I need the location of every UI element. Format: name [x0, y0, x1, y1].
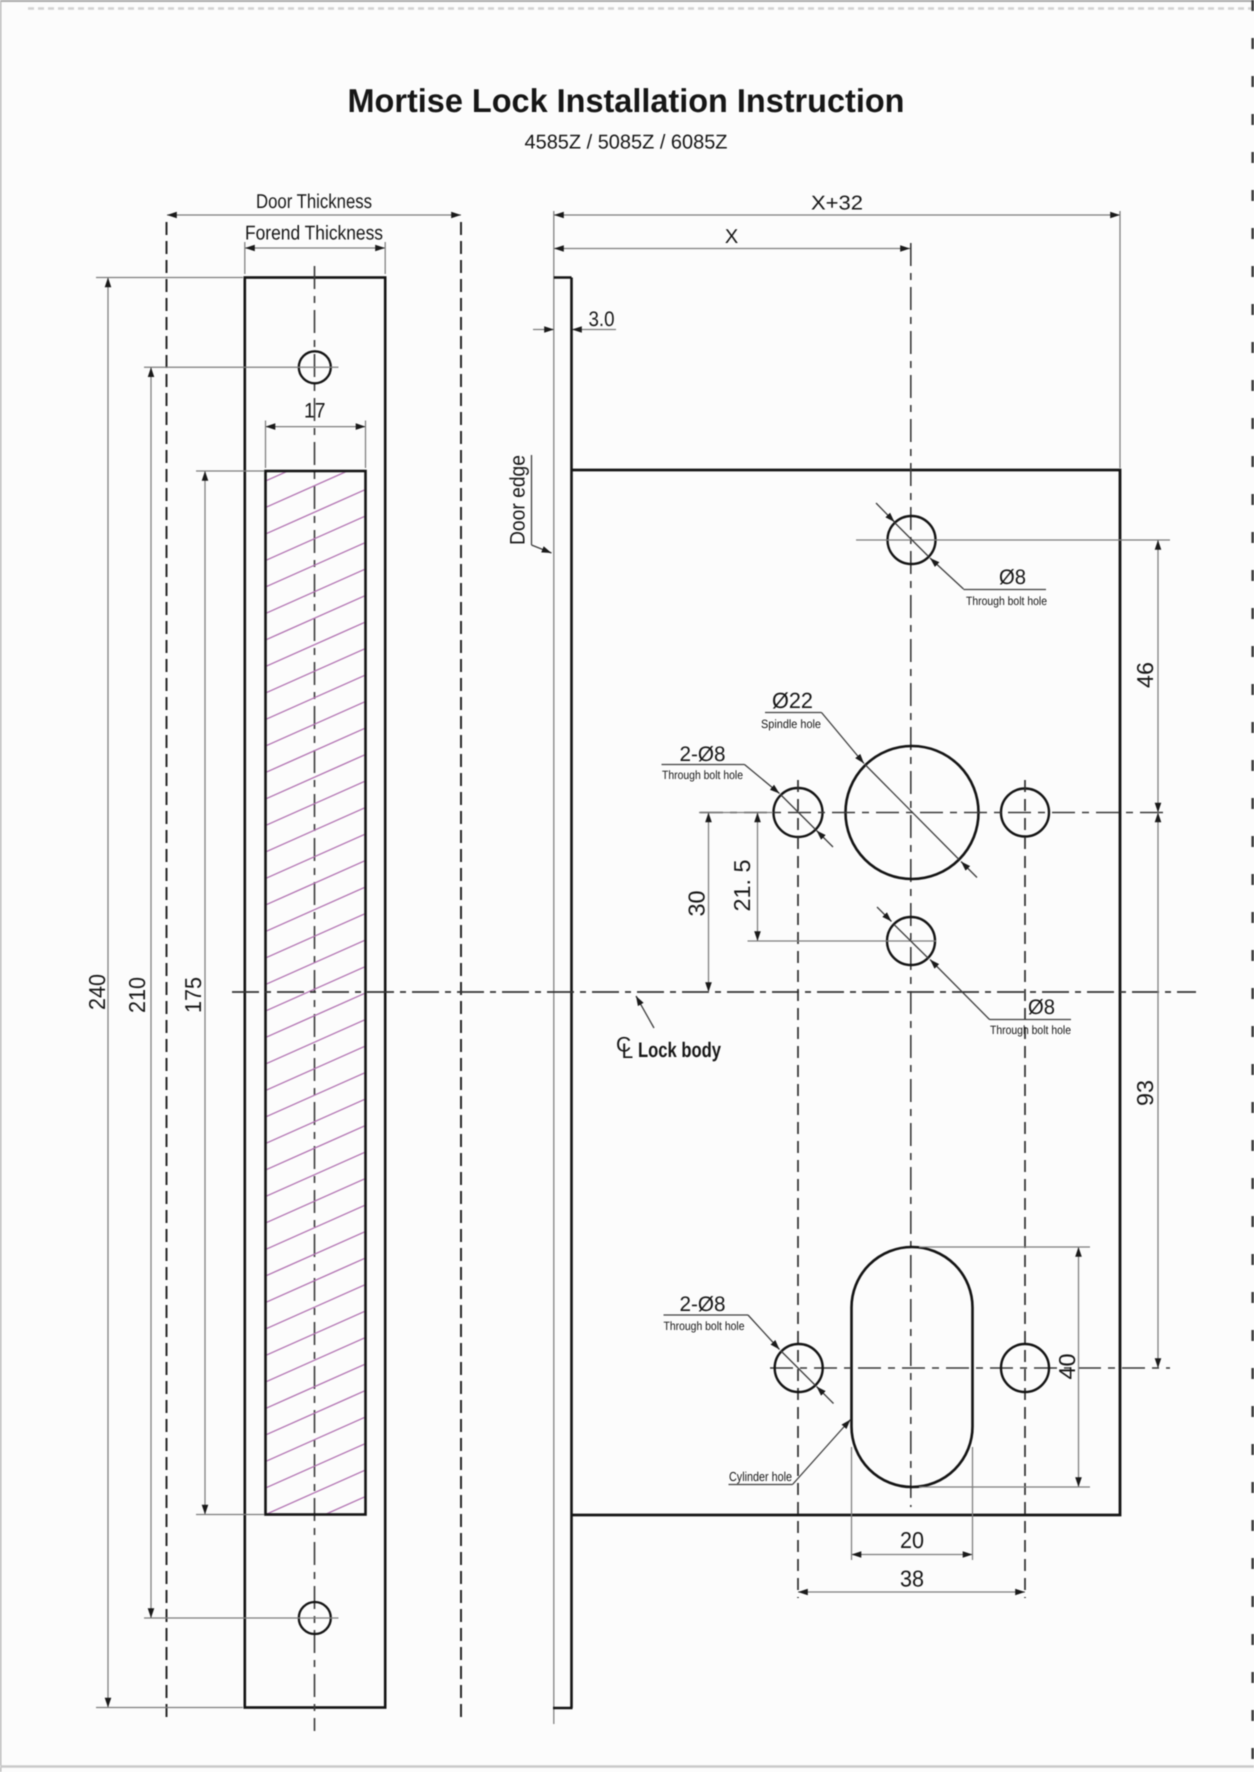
label Door edge — [507, 455, 552, 553]
svg-text:Spindle hole: Spindle hole — [761, 717, 821, 731]
scan dashes top — [28, 7, 1254, 10]
lock body outline — [572, 470, 1121, 1515]
scan dashes right — [1251, 0, 1254, 1772]
dim 175 — [180, 471, 264, 1515]
dim 21.5 — [729, 813, 758, 942]
svg-text:Door edge: Door edge — [507, 455, 530, 545]
wire top hole horizontal line — [856, 539, 1170, 541]
leader 2-Ø8 bottom — [664, 1293, 834, 1404]
svg-text:46: 46 — [1132, 662, 1158, 688]
dim 3.0 — [533, 308, 616, 331]
wire top hole horizontal centerline — [144, 366, 339, 368]
svg-text:Through bolt hole: Through bolt hole — [662, 768, 743, 782]
through bolt hole bottom left — [775, 1344, 823, 1392]
through bolt hole top — [888, 516, 936, 564]
node plate vertical centerline — [314, 266, 316, 1731]
dim 30 — [684, 813, 710, 993]
leader top hole Ø8 — [876, 503, 1047, 608]
through bolt hole lower — [887, 917, 935, 965]
svg-text:4585Z / 5085Z / 6085Z: 4585Z / 5085Z / 6085Z — [525, 132, 728, 154]
wire lower hole horizontal line — [748, 940, 937, 942]
dim 17 — [266, 400, 366, 469]
leader 2-Ø8 mid — [662, 743, 834, 847]
dim 20 — [852, 1447, 973, 1560]
wire mid extension solid — [699, 812, 773, 814]
forend bar side view right edge — [570, 278, 573, 1709]
hatched mortise slot — [266, 437, 366, 1568]
screw hole top — [299, 351, 331, 383]
svg-text:210: 210 — [124, 977, 150, 1013]
cylinder hole oval — [852, 1247, 973, 1487]
node spindle vertical centerline — [910, 243, 912, 1507]
node lock body horizontal centerline — [232, 991, 1196, 993]
svg-text:Ø8: Ø8 — [999, 566, 1026, 589]
dim Door Thickness — [167, 191, 461, 215]
svg-text:Through bolt hole: Through bolt hole — [966, 594, 1047, 608]
dim Forend Thickness — [245, 223, 385, 275]
leader spindle hole Ø22 — [761, 688, 977, 878]
leader lower hole Ø8 — [877, 907, 1071, 1037]
wire door edge thin vertical line — [553, 211, 555, 1724]
node bottom holes horizontal centerline — [770, 1367, 1170, 1369]
wire left hole dashed vertical — [797, 780, 799, 1598]
scan edge left — [0, 0, 2, 1772]
scan edge top — [0, 0, 1254, 2]
scan edge bottom — [0, 1765, 1254, 1768]
svg-text:Mortise Lock Installation Inst: Mortise Lock Installation Instruction — [348, 82, 905, 119]
through bolt hole mid right — [1001, 789, 1049, 837]
dim 46 — [1132, 540, 1158, 813]
leader Cylinder hole — [729, 1420, 851, 1485]
wire door-edge dashed line left — [166, 222, 168, 1721]
svg-text:175: 175 — [180, 977, 206, 1013]
dim 38 — [798, 1566, 1025, 1593]
svg-text:Door Thickness: Door Thickness — [256, 191, 372, 213]
dim 240 — [84, 278, 243, 1708]
forend plate front view — [245, 278, 385, 1708]
svg-text:Lock body: Lock body — [638, 1039, 721, 1062]
svg-text:38: 38 — [900, 1566, 924, 1592]
svg-text:Ø8: Ø8 — [1028, 996, 1055, 1019]
svg-text:40: 40 — [1054, 1354, 1080, 1380]
svg-text:20: 20 — [900, 1527, 924, 1553]
svg-text:X: X — [725, 226, 738, 248]
label CL Lock body — [616, 996, 721, 1063]
through bolt hole mid left — [774, 788, 823, 837]
svg-text:240: 240 — [84, 974, 110, 1010]
svg-text:3.0: 3.0 — [589, 308, 615, 331]
svg-text:93: 93 — [1132, 1080, 1158, 1106]
svg-text:Through bolt hole: Through bolt hole — [664, 1319, 745, 1333]
spindle hole Ø22 — [846, 746, 979, 879]
dim 210 — [124, 367, 151, 1618]
dim 93 — [1132, 813, 1158, 1369]
svg-text:X+32: X+32 — [811, 193, 863, 215]
svg-text:Forend Thickness: Forend Thickness — [245, 223, 383, 245]
dim X+32 — [554, 193, 1120, 469]
forend bar side view top cap — [554, 276, 572, 279]
svg-text:2-Ø8: 2-Ø8 — [680, 743, 726, 766]
svg-text:21. 5: 21. 5 — [729, 860, 755, 912]
wire door-edge dashed line right — [460, 222, 462, 1721]
svg-text:Through bolt hole: Through bolt hole — [990, 1023, 1071, 1037]
svg-text:2-Ø8: 2-Ø8 — [680, 1293, 726, 1316]
through bolt hole bottom right — [1001, 1344, 1049, 1392]
node mid holes horizontal centerline — [700, 812, 1170, 814]
svg-text:17: 17 — [304, 400, 326, 423]
wire right hole dashed vertical — [1024, 780, 1026, 1598]
screw hole bottom — [299, 1602, 331, 1634]
svg-text:Cylinder hole: Cylinder hole — [729, 1469, 792, 1484]
svg-text:Ø22: Ø22 — [772, 688, 813, 713]
svg-text:L: L — [622, 1040, 634, 1063]
svg-text:30: 30 — [684, 891, 710, 917]
wire bottom hole horizontal centerline — [144, 1617, 339, 1619]
dim 40 — [919, 1247, 1090, 1487]
dim X — [554, 226, 910, 249]
forend bar side view bottom cap — [553, 1707, 573, 1710]
